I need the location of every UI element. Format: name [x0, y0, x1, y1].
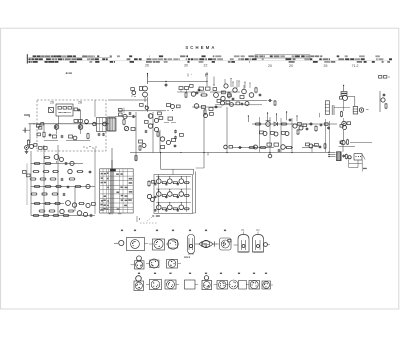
dashed line below: [140, 222, 158, 224]
power horizontals: [349, 163, 363, 167]
svg-text:28: 28: [78, 101, 82, 105]
svg-text:20: 20: [289, 64, 293, 68]
svg-text:20: 20: [268, 64, 272, 68]
right verticals to mains: [326, 119, 330, 152]
resistor R1 dark: [49, 108, 54, 113]
cluster audio: [254, 143, 294, 152]
cluster mixer stage: [196, 84, 235, 100]
tube B12: [134, 276, 144, 291]
power circle: [348, 156, 351, 159]
cluster bias: [340, 111, 343, 121]
triode stage 1: [154, 176, 167, 185]
transformer M4: [340, 121, 351, 129]
corner mark: [24, 114, 29, 117]
below box text: [152, 215, 160, 216]
transformer M3: [353, 107, 368, 115]
cluster out low: [340, 130, 372, 152]
tube B13: [146, 280, 162, 290]
left vertical to cluster: [31, 145, 95, 155]
wire stage B: [148, 97, 161, 153]
extra mixer part: [213, 88, 217, 91]
cluster output driver: [340, 92, 348, 101]
column left of transformer: [131, 88, 136, 97]
stub row: [232, 80, 250, 88]
resistor R6: [27, 139, 29, 146]
tube B19: [246, 281, 260, 290]
rectifier box: [354, 154, 365, 160]
transistor TB1: [148, 114, 153, 119]
wire det row: [192, 107, 222, 153]
triode stage 9: [177, 202, 190, 211]
tiny labels above wire: [191, 74, 193, 75]
tube B1: [114, 238, 148, 251]
left parts of output: [320, 101, 350, 118]
transformer M1: [140, 86, 148, 102]
small cluster input: [33, 123, 43, 136]
cluster caps col: [174, 130, 183, 140]
row3 labels: [138, 273, 267, 274]
components row d: [34, 184, 91, 188]
tick marks: [148, 74, 206, 77]
small marks right of table: [137, 216, 140, 222]
marks below box: [83, 146, 96, 149]
oscillator sub-box: [56, 104, 73, 116]
tube B9: [131, 256, 145, 269]
wire right link: [344, 97, 355, 112]
triode stage 8: [165, 202, 178, 211]
cluster B left-low: [139, 140, 147, 151]
mains terminals: [328, 152, 335, 158]
tube B6: [216, 238, 231, 250]
svg-text:71.2: 71.2: [352, 64, 359, 68]
row2 band: [260, 131, 290, 136]
power caption: [363, 168, 367, 169]
bottom small rects: [39, 147, 48, 150]
box right margin line: [161, 153, 208, 214]
wire vert 227: [224, 107, 233, 153]
left of box resistor: [148, 180, 155, 187]
label 28: [78, 101, 82, 105]
tube B10: [146, 259, 159, 268]
wire top feed: [147, 73, 148, 84]
cluster osc coil: [240, 85, 261, 99]
wire right feed: [343, 85, 344, 92]
table cell entries: [100, 173, 132, 211]
dashed diagonal: [146, 217, 152, 222]
components row a: [34, 161, 75, 165]
tube B2: [149, 239, 165, 250]
wire verticals cluster: [27, 155, 95, 216]
voltage table: [100, 160, 134, 213]
triode stage 4: [154, 189, 167, 198]
capacitor CB1: [145, 112, 163, 137]
long vertical to table: [111, 148, 113, 160]
bus verticals: [136, 145, 205, 168]
tube B14: [165, 280, 179, 289]
power verticals: [349, 160, 363, 172]
tube B20: [262, 281, 273, 289]
components row c: [30, 178, 76, 181]
output stage box: [154, 175, 193, 214]
cluster det: [194, 104, 217, 115]
wire T2 vertical: [80, 110, 82, 125]
svg-text:P2: P2: [256, 228, 260, 232]
resistor R10: [255, 123, 262, 125]
diode D1: [274, 122, 278, 126]
wire row h: [31, 215, 95, 217]
parts list left bracket: [27, 54, 28, 63]
wire audio row: [232, 146, 355, 153]
wire stage A vert: [124, 108, 136, 146]
table header dark cell: [110, 169, 116, 172]
capacitor C2: [49, 133, 52, 137]
speaker right: [380, 91, 387, 112]
IF can parts: [167, 104, 181, 112]
IF transformer T26: [103, 117, 115, 131]
box internal wires: [156, 175, 191, 214]
box feed verticals: [160, 152, 182, 153]
resistor R14: [249, 146, 267, 148]
variable cap: [124, 126, 135, 130]
svg-text:26: 26: [50, 101, 54, 105]
parts list fine print row 2: [29, 58, 393, 60]
wire T1 vertical: [44, 116, 81, 134]
triode stage 5: [165, 189, 178, 198]
components row h: [33, 214, 93, 217]
tube B3: [166, 239, 178, 249]
wire det verticals: [259, 117, 293, 153]
transistor TB2: [154, 118, 158, 122]
section number labels: [145, 63, 358, 67]
cluster top pair: [44, 155, 64, 163]
wire row a: [31, 163, 83, 165]
resistor R11: [281, 123, 288, 125]
resistor R13: [315, 123, 330, 132]
capacitor C5: [268, 99, 276, 106]
svg-text:30: 30: [184, 63, 188, 67]
arrow head: [206, 72, 208, 75]
tube B7 bulb: [234, 232, 250, 253]
capacitor C6: [289, 118, 292, 121]
top right marks: [379, 76, 390, 79]
wire box bottom: [44, 140, 90, 142]
triode stage 3: [177, 176, 190, 185]
parts right of subbox: [74, 108, 80, 112]
wire IF amp: [177, 90, 205, 93]
cluster mid labels: [164, 117, 176, 123]
tube B18: [226, 280, 247, 289]
supply stubs above band: [248, 111, 298, 122]
wire row d: [31, 186, 95, 188]
wire stage A horiz: [108, 100, 166, 117]
table caption: [100, 210, 122, 214]
dashed enclosure box RF unit: [37, 100, 106, 151]
cluster audio2: [306, 143, 327, 149]
mark right: [184, 257, 190, 258]
power caps: [342, 154, 347, 160]
antenna input terminal: [23, 124, 31, 143]
svg-text:25: 25: [324, 64, 328, 68]
svg-text:22: 22: [204, 63, 208, 67]
transformer M2: [266, 121, 271, 127]
title SCHEMA: [185, 45, 216, 50]
row1 pin labels: [121, 230, 226, 232]
svg-text:26: 26: [145, 63, 149, 67]
transistor TB3: [148, 124, 158, 132]
IF can A feet: [98, 133, 105, 136]
tube B17: [214, 281, 228, 290]
triode stage 7: [154, 202, 167, 211]
cluster det dense: [293, 123, 308, 136]
transistor T1: [54, 125, 59, 130]
circle mid: [85, 120, 89, 125]
row1 tube labels: [241, 228, 260, 232]
resistor R3: [43, 131, 45, 138]
wire row f: [31, 203, 64, 205]
cluster B lower: [160, 137, 176, 149]
IF can A: [93, 100, 106, 132]
parts list fine print row 3: [29, 61, 391, 63]
components row b: [33, 169, 92, 173]
capacitor pair mid: [74, 120, 82, 123]
capacitor C4: [165, 83, 168, 87]
pencil marks left: [66, 73, 72, 74]
cluster row f dense: [34, 201, 96, 208]
left edge parts: [23, 171, 31, 177]
cluster 2nd IF lower: [217, 100, 249, 107]
transistor T2: [78, 125, 83, 130]
wire mid link: [222, 92, 267, 101]
parts below T2: [69, 133, 90, 140]
capacitor C7: [310, 122, 313, 126]
tube B4 side view: [188, 235, 195, 255]
cluster tuning: [119, 109, 135, 119]
parts below T1: [53, 135, 64, 138]
parts list fine print row 1: [29, 55, 380, 58]
triode stage 2: [165, 176, 178, 185]
wire osc feed: [207, 73, 214, 87]
parts below transformer: [140, 104, 149, 110]
tube B5 lens: [195, 240, 217, 247]
tube B8 bulb: [253, 232, 271, 253]
wire band row: [252, 123, 337, 125]
wire top horizontal: [148, 81, 208, 82]
triode stage 6: [177, 189, 190, 198]
wire main row: [29, 123, 110, 125]
ground G1: [25, 150, 29, 153]
part on left wire: [39, 127, 42, 130]
svg-text:SCHEMA: SCHEMA: [185, 45, 216, 50]
left of box circles: [147, 194, 154, 201]
cluster 2nd IF: [222, 78, 238, 97]
component on bus: [135, 152, 272, 161]
tube B16: [202, 276, 212, 290]
svg-text:P1: P1: [241, 228, 245, 232]
label 26: [50, 101, 54, 105]
IF can B: [108, 118, 116, 131]
wire ifrow: [215, 104, 262, 106]
input circle low: [25, 146, 29, 150]
power transformer winding: [337, 152, 342, 161]
bus wire: [130, 152, 329, 154]
components row e: [31, 193, 66, 196]
resistor R7: [30, 144, 38, 149]
tube B11: [167, 260, 182, 269]
capacitor C8: [238, 146, 242, 149]
cluster IF amp: [179, 85, 200, 99]
tube B15 open box: [185, 280, 199, 289]
resistor RA1: [123, 119, 125, 126]
components row g: [39, 209, 88, 216]
